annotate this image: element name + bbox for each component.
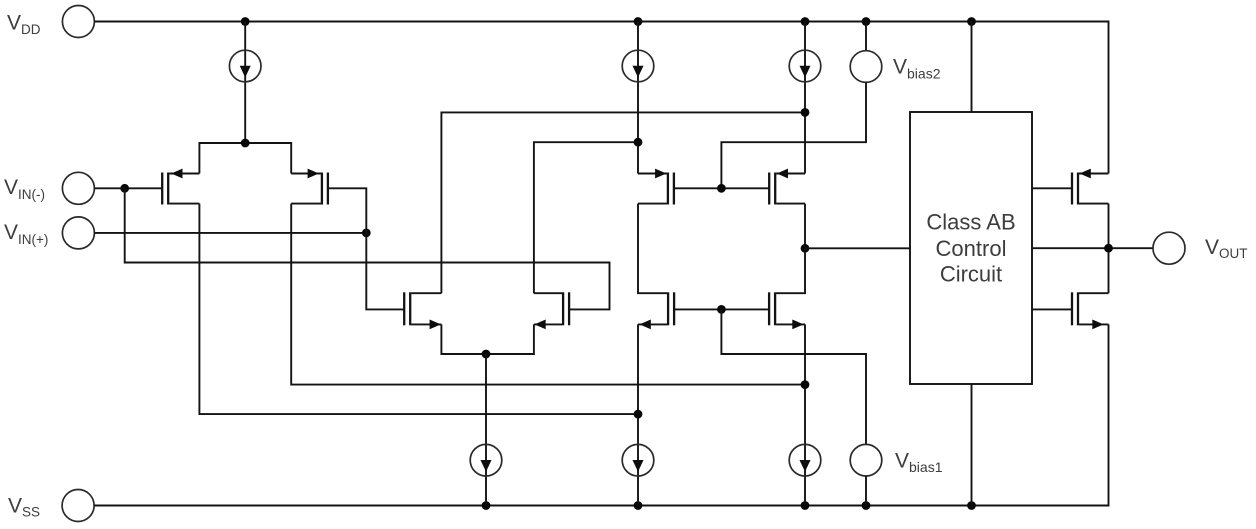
node rail-I2 <box>634 17 643 26</box>
node M4 drain / M5 source <box>634 138 643 147</box>
current source I1 <box>229 22 261 144</box>
node rail-I5 <box>634 501 643 510</box>
wire M4 source to tail <box>486 324 534 354</box>
node N pair tail <box>482 350 491 359</box>
wire M4 drain to M5 source <box>534 142 638 293</box>
wire M2 drain to I6 node <box>291 204 805 385</box>
node rail-I6 <box>801 501 810 510</box>
node rail-I1 <box>241 17 250 26</box>
box class AB control circuit <box>910 112 1032 384</box>
node VIN+ <box>362 229 371 238</box>
transistor M4 <box>534 292 569 329</box>
node VOUT <box>1104 244 1113 253</box>
transistor M6 <box>769 169 805 205</box>
svg-text:Class AB: Class AB <box>926 210 1015 235</box>
wire M9 drain to output <box>1108 204 1110 249</box>
wire M1 drain to I5 node <box>199 204 638 415</box>
wire M3 drain to M6 source <box>441 112 805 293</box>
wire M8 drain <box>776 248 805 293</box>
wire VIN- to M4 gate <box>125 188 610 309</box>
node VIN- <box>120 184 129 193</box>
transistor M10 <box>1072 292 1109 329</box>
terminal VOUT <box>1153 232 1185 264</box>
wire M10 drain to output <box>1108 248 1110 293</box>
current source I6 <box>789 324 821 505</box>
node M2 drain junction <box>801 380 810 389</box>
node M1 drain junction <box>634 410 643 419</box>
transistor M3 <box>404 292 441 329</box>
node rail-Vbias2 <box>862 17 871 26</box>
terminal VIN+ <box>62 217 94 249</box>
node rail-Vbias1 <box>862 501 871 510</box>
wire gates to Vbias1 <box>721 309 866 444</box>
transistor M9 <box>1072 169 1109 205</box>
node rail-I4 <box>482 501 491 510</box>
wire M2 gate to M3 gate <box>328 188 404 309</box>
transistor M2 <box>291 169 328 205</box>
node rail-box <box>967 17 976 26</box>
wire Vbias2 to cascode gates <box>721 82 866 188</box>
terminal Vbias1 <box>850 444 882 505</box>
current source I5 <box>622 324 654 505</box>
terminal VIN- <box>62 172 94 204</box>
node tail P pair <box>241 139 250 148</box>
wire cascode N gates <box>674 308 769 310</box>
wire cascode P gates <box>674 187 769 189</box>
wire box to M9 gate <box>1032 187 1072 189</box>
node Vbias2 gate junction <box>717 184 726 193</box>
terminal Vbias2 <box>850 22 882 83</box>
node second stage output <box>801 244 810 253</box>
terminal VSS <box>62 490 94 522</box>
wire VDD rail <box>94 22 1108 174</box>
wire rail to class AB box top <box>971 22 973 113</box>
current source I4 <box>470 354 502 506</box>
wire output node to class AB box <box>805 247 910 249</box>
wire input pair source node <box>199 143 291 174</box>
node rail-box2 <box>967 501 976 510</box>
transistor M1 <box>162 169 199 205</box>
wire M5 drain to M7 drain <box>638 204 667 294</box>
terminal VDD <box>62 6 94 38</box>
wire box to M10 gate <box>1032 308 1072 310</box>
wire VIN+ <box>94 232 366 234</box>
node rail-I3 <box>801 17 810 26</box>
wire class AB box bottom to rail <box>971 384 973 506</box>
node M3 drain / M6 source <box>801 108 810 117</box>
current source I3 <box>789 22 821 174</box>
transistor M5 <box>638 169 674 205</box>
wire box to VOUT <box>1032 247 1153 249</box>
transistor M8 <box>769 292 805 329</box>
node Vbias1 gate junction <box>717 305 726 314</box>
svg-text:Circuit: Circuit <box>940 262 1002 287</box>
transistor M7 <box>638 292 674 329</box>
wire VSS rail <box>94 324 1108 505</box>
svg-text:Control: Control <box>936 236 1007 261</box>
wire M3 source to tail <box>441 324 486 354</box>
wire M6 drain to output node <box>804 204 806 249</box>
current source I2 <box>622 22 654 174</box>
wire VIN- to M1 gate <box>94 187 162 189</box>
